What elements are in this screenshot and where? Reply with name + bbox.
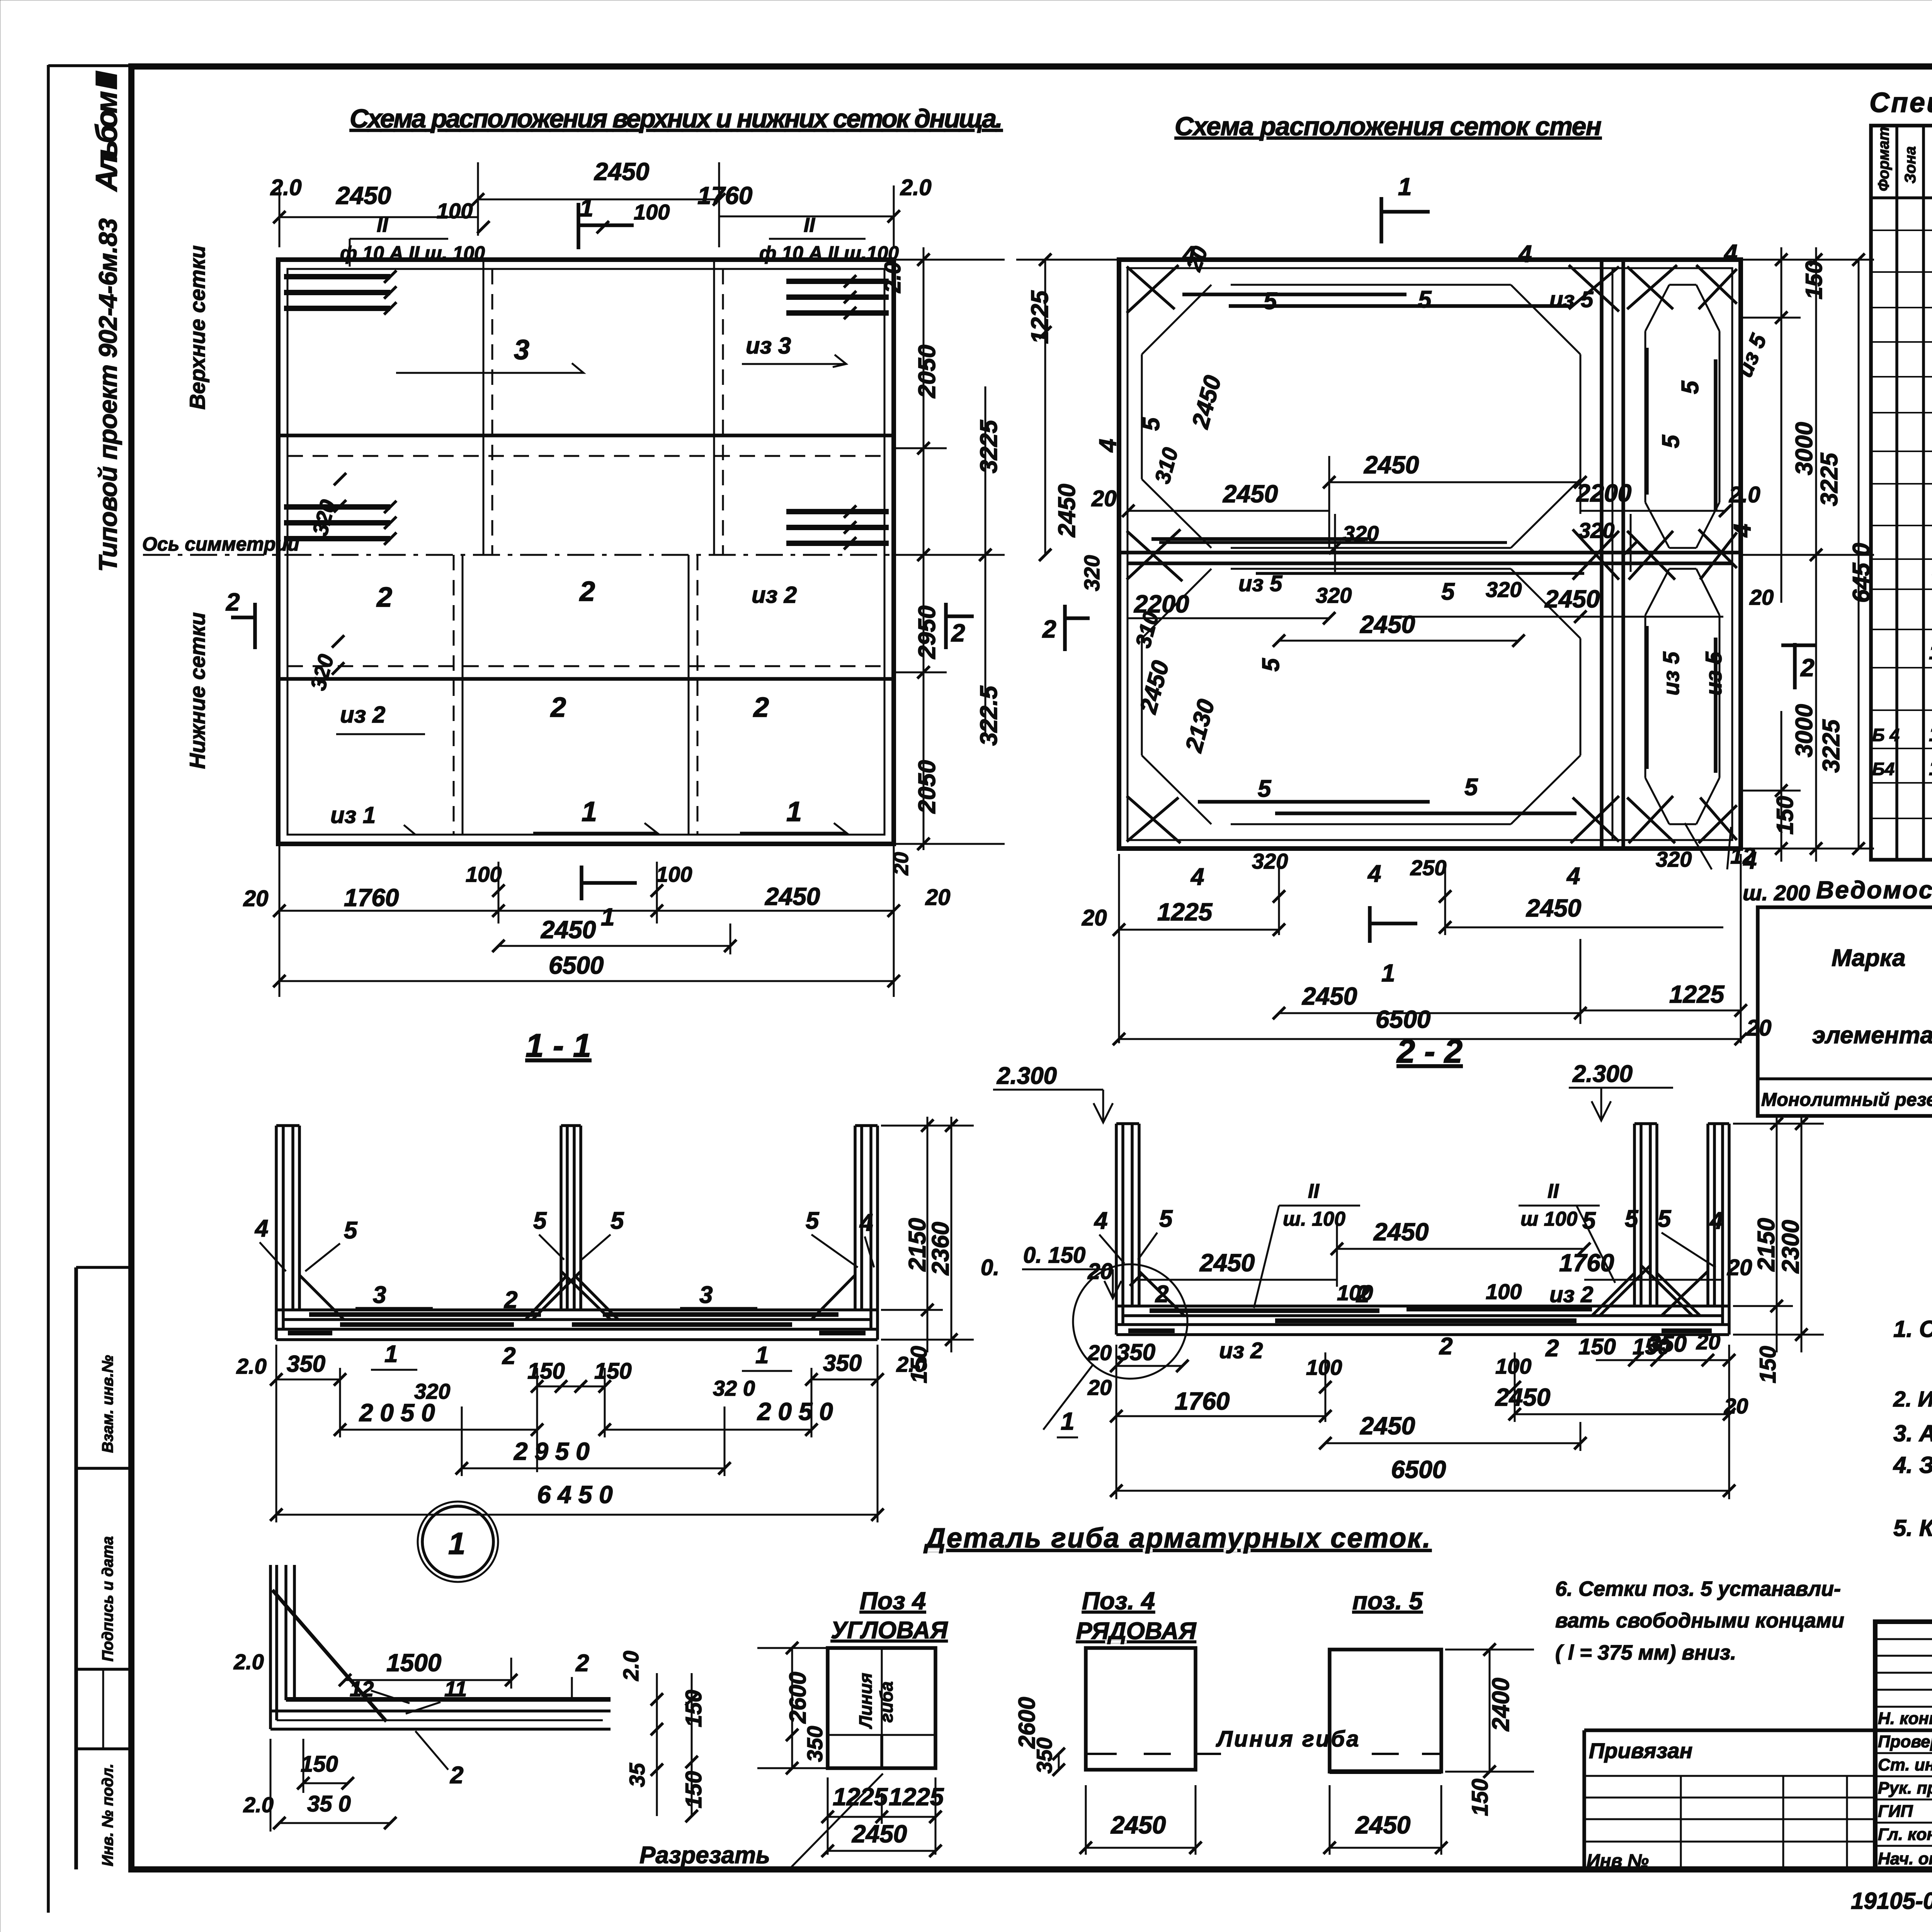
svg-text:2450: 2450 bbox=[1495, 1383, 1550, 1411]
svg-text:из 2: из 2 bbox=[1549, 1282, 1593, 1307]
svg-text:элемента: элемента bbox=[1812, 1022, 1932, 1049]
svg-text:320: 320 bbox=[308, 497, 340, 539]
svg-text:Ось симметрии: Ось симметрии bbox=[142, 533, 299, 555]
svg-text:2: 2 bbox=[753, 692, 769, 723]
svg-text:2.0: 2.0 bbox=[880, 262, 905, 293]
svg-text:из 5: из 5 bbox=[1549, 287, 1594, 312]
svg-text:2.0: 2.0 bbox=[900, 175, 932, 200]
svg-text:150: 150 bbox=[527, 1359, 565, 1384]
svg-text:100: 100 bbox=[656, 862, 692, 886]
svg-text:150: 150 bbox=[1468, 1779, 1493, 1816]
svg-text:20: 20 bbox=[243, 886, 269, 911]
svg-text:Нижние сетки: Нижние сетки bbox=[185, 612, 209, 769]
svg-text:2 0 5 0: 2 0 5 0 bbox=[757, 1398, 833, 1425]
svg-text:Поз. 4: Поз. 4 bbox=[1082, 1587, 1155, 1615]
svg-text:2600: 2600 bbox=[785, 1672, 811, 1724]
svg-text:1760: 1760 bbox=[1559, 1249, 1614, 1277]
svg-text:УГЛОВАЯ: УГЛОВАЯ bbox=[831, 1617, 948, 1644]
svg-text:6 4 5 0: 6 4 5 0 bbox=[537, 1481, 613, 1509]
svg-text:12: 12 bbox=[1730, 844, 1755, 869]
svg-text:2 9 5 0: 2 9 5 0 bbox=[514, 1437, 590, 1465]
svg-text:3: 3 bbox=[373, 1282, 386, 1308]
svg-text:2450: 2450 bbox=[1302, 982, 1357, 1010]
svg-text:10: 10 bbox=[1929, 641, 1932, 664]
svg-text:2: 2 bbox=[1800, 654, 1815, 682]
svg-text:из 5: из 5 bbox=[1659, 651, 1684, 696]
svg-text:Гл. конст: Гл. конст bbox=[1878, 1825, 1932, 1844]
svg-text:5: 5 bbox=[1464, 774, 1478, 801]
svg-text:1760: 1760 bbox=[697, 182, 752, 209]
svg-text:12: 12 bbox=[350, 1677, 374, 1701]
svg-text:320: 320 bbox=[1656, 847, 1692, 871]
svg-text:4: 4 bbox=[1566, 863, 1580, 889]
svg-text:35 0: 35 0 bbox=[307, 1791, 351, 1816]
svg-text:из 2: из 2 bbox=[340, 702, 385, 728]
svg-text:1225: 1225 bbox=[1669, 980, 1725, 1008]
svg-text:из 2: из 2 bbox=[1219, 1338, 1263, 1363]
svg-text:2: 2 bbox=[502, 1343, 515, 1369]
svg-text:1: 1 bbox=[1398, 173, 1412, 201]
svg-text:250: 250 bbox=[1410, 855, 1446, 880]
svg-text:100: 100 bbox=[466, 862, 502, 886]
svg-text:2450: 2450 bbox=[1364, 451, 1419, 479]
svg-text:из 5: из 5 bbox=[1701, 651, 1726, 696]
svg-text:150: 150 bbox=[594, 1359, 632, 1384]
svg-text:5: 5 bbox=[806, 1207, 820, 1234]
svg-text:2450: 2450 bbox=[1054, 484, 1080, 537]
svg-text:20: 20 bbox=[1087, 1375, 1112, 1400]
svg-text:1 - 1: 1 - 1 bbox=[526, 1027, 591, 1064]
svg-text:150: 150 bbox=[1772, 796, 1798, 835]
svg-text:2: 2 bbox=[579, 576, 595, 607]
svg-text:5: 5 bbox=[344, 1217, 358, 1244]
svg-text:2130: 2130 bbox=[1180, 697, 1220, 755]
svg-text:320: 320 bbox=[1252, 849, 1288, 873]
svg-text:350: 350 bbox=[1032, 1738, 1056, 1774]
svg-text:100: 100 bbox=[1495, 1354, 1531, 1378]
svg-text:2: 2 bbox=[1042, 615, 1056, 643]
svg-text:350: 350 bbox=[823, 1350, 862, 1376]
svg-text:ГИП: ГИП bbox=[1878, 1802, 1913, 1821]
svg-text:Инв. № подл.: Инв. № подл. bbox=[99, 1764, 116, 1866]
svg-text:2450: 2450 bbox=[1360, 611, 1415, 638]
svg-text:2: 2 bbox=[376, 582, 392, 613]
svg-text:Монолитный резервуар: Монолитный резервуар bbox=[1761, 1090, 1932, 1110]
svg-text:Верхние сетки: Верхние сетки bbox=[185, 245, 209, 410]
svg-text:100: 100 bbox=[634, 200, 670, 224]
svg-text:из 1: из 1 bbox=[330, 802, 376, 828]
svg-text:20: 20 bbox=[1087, 1340, 1112, 1365]
svg-text:II: II bbox=[377, 214, 388, 236]
svg-text:ф 10 А II ш. 100: ф 10 А II ш. 100 bbox=[340, 242, 485, 264]
svg-text:Привязан: Привязан bbox=[1589, 1738, 1692, 1763]
svg-text:1: 1 bbox=[448, 1526, 466, 1561]
svg-text:5: 5 bbox=[1441, 578, 1455, 605]
svg-text:II: II bbox=[1548, 1180, 1559, 1202]
svg-text:3: 3 bbox=[699, 1282, 713, 1308]
svg-text:2 - 2: 2 - 2 bbox=[1396, 1033, 1463, 1070]
svg-text:320: 320 bbox=[1316, 583, 1352, 607]
svg-text:РЯДОВАЯ: РЯДОВАЯ bbox=[1076, 1618, 1197, 1645]
svg-text:2450: 2450 bbox=[594, 158, 649, 185]
svg-text:из 5: из 5 bbox=[1732, 330, 1772, 381]
svg-text:II: II bbox=[1308, 1180, 1320, 1202]
svg-text:5: 5 bbox=[1138, 417, 1165, 431]
svg-text:II: II bbox=[804, 214, 815, 236]
svg-text:20: 20 bbox=[1091, 486, 1117, 511]
svg-text:ф 10 А II ш.100: ф 10 А II ш.100 bbox=[759, 242, 899, 264]
svg-text:4: 4 bbox=[1095, 439, 1121, 453]
svg-text:1: 1 bbox=[786, 796, 802, 827]
svg-text:150: 150 bbox=[301, 1752, 338, 1777]
svg-text:Схема расположения верхних и н: Схема расположения верхних и нижних сето… bbox=[350, 104, 1003, 133]
svg-text:Инв №: Инв № bbox=[1587, 1851, 1649, 1871]
svg-text:4. Защитный слой бетона: 4. Защитный слой бетона для нижних сеток… bbox=[1893, 1452, 1932, 1478]
svg-text:1: 1 bbox=[755, 1342, 769, 1369]
svg-text:100: 100 bbox=[1306, 1355, 1342, 1379]
svg-text:6. Сетки поз. 5 устанавли-: 6. Сетки поз. 5 устанавли- bbox=[1555, 1577, 1841, 1600]
svg-text:Провер.: Провер. bbox=[1878, 1732, 1932, 1751]
svg-text:19105-01: 19105-01 bbox=[1851, 1888, 1932, 1914]
svg-text:Взам. инв.№: Взам. инв.№ bbox=[99, 1355, 116, 1453]
svg-text:1: 1 bbox=[580, 194, 594, 222]
svg-text:3. Арматурные сетки поз: 3. Арматурные сетки поз 1÷5 выполнены по… bbox=[1893, 1420, 1932, 1446]
svg-text:4: 4 bbox=[1723, 240, 1737, 267]
svg-text:Линия: Линия bbox=[855, 1673, 876, 1729]
svg-text:5: 5 bbox=[1677, 380, 1704, 394]
svg-text:2150: 2150 bbox=[904, 1218, 931, 1272]
svg-text:2450: 2450 bbox=[765, 883, 820, 910]
svg-text:20: 20 bbox=[1749, 585, 1774, 609]
svg-text:6500: 6500 bbox=[1376, 1005, 1430, 1033]
svg-text:0. 150: 0. 150 bbox=[1023, 1243, 1085, 1268]
svg-text:1: 1 bbox=[1381, 959, 1395, 987]
svg-text:Марка: Марка bbox=[1832, 945, 1905, 971]
svg-text:4: 4 bbox=[1729, 524, 1756, 538]
svg-text:2.300: 2.300 bbox=[1572, 1061, 1633, 1087]
svg-text:5: 5 bbox=[1625, 1206, 1639, 1232]
svg-text:350: 350 bbox=[1648, 1331, 1687, 1357]
svg-text:1225: 1225 bbox=[1157, 898, 1213, 926]
svg-text:6500: 6500 bbox=[1391, 1456, 1446, 1483]
svg-text:0.: 0. bbox=[981, 1255, 999, 1280]
svg-text:11: 11 bbox=[444, 1677, 467, 1701]
svg-text:2: 2 bbox=[450, 1762, 463, 1789]
svg-text:2050: 2050 bbox=[914, 345, 940, 398]
svg-text:Спецификация монолитного резер: Спецификация монолитного резервуара bbox=[1869, 87, 1932, 118]
svg-text:2.0: 2.0 bbox=[233, 1650, 264, 1674]
svg-text:350: 350 bbox=[803, 1726, 827, 1762]
svg-text:5: 5 bbox=[1658, 1206, 1672, 1232]
svg-text:2450: 2450 bbox=[1526, 894, 1581, 922]
svg-text:гиба: гиба bbox=[876, 1681, 896, 1723]
svg-text:2450: 2450 bbox=[1544, 585, 1600, 613]
svg-text:2: 2 bbox=[1439, 1333, 1452, 1360]
svg-text:2: 2 bbox=[226, 588, 240, 616]
svg-text:320: 320 bbox=[1343, 521, 1379, 546]
svg-text:4: 4 bbox=[1709, 1207, 1723, 1234]
svg-text:5. Количество сальников: 5. Количество сальников в скобках относя… bbox=[1893, 1515, 1932, 1541]
svg-text:2050: 2050 bbox=[914, 760, 940, 814]
svg-text:Поз 4: Поз 4 bbox=[860, 1587, 926, 1615]
svg-text:ш. 200: ш. 200 bbox=[1743, 881, 1810, 905]
svg-text:4: 4 bbox=[1367, 861, 1381, 887]
svg-text:1760: 1760 bbox=[344, 884, 399, 912]
svg-text:320: 320 bbox=[1578, 518, 1614, 543]
svg-text:3000: 3000 bbox=[1791, 704, 1818, 757]
svg-text:2950: 2950 bbox=[914, 605, 940, 659]
svg-text:1760: 1760 bbox=[1175, 1387, 1230, 1415]
svg-text:2.0: 2.0 bbox=[270, 175, 302, 200]
svg-text:2450: 2450 bbox=[1355, 1811, 1410, 1839]
svg-text:1. Сетки поз 4 и 5 с: 1. Сетки поз 4 и 5 согнуть по месту до bbox=[1893, 1316, 1932, 1342]
svg-text:1: 1 bbox=[601, 903, 615, 931]
svg-text:1: 1 bbox=[1061, 1407, 1075, 1435]
svg-text:2450: 2450 bbox=[1135, 658, 1175, 717]
svg-text:2.0: 2.0 bbox=[619, 1651, 643, 1681]
svg-text:3: 3 bbox=[514, 335, 529, 366]
svg-text:2.0: 2.0 bbox=[243, 1793, 274, 1817]
svg-text:150: 150 bbox=[1578, 1334, 1616, 1359]
svg-text:322.5: 322.5 bbox=[976, 685, 1002, 746]
svg-text:4: 4 bbox=[1094, 1207, 1107, 1234]
svg-text:2.0: 2.0 bbox=[1729, 482, 1760, 507]
svg-text:2450: 2450 bbox=[1360, 1412, 1415, 1440]
svg-text:5: 5 bbox=[1159, 1206, 1173, 1232]
svg-text:1: 1 bbox=[384, 1341, 398, 1367]
svg-text:1500: 1500 bbox=[386, 1649, 441, 1677]
svg-text:350: 350 bbox=[287, 1351, 325, 1377]
svg-text:1225: 1225 bbox=[1027, 290, 1053, 344]
svg-text:Типовой проект 902-4-6м.83: Типовой проект 902-4-6м.83 bbox=[94, 218, 122, 572]
svg-text:20: 20 bbox=[1727, 1255, 1752, 1280]
svg-text:150: 150 bbox=[1801, 261, 1827, 299]
svg-text:Н. контр.: Н. контр. bbox=[1878, 1709, 1932, 1728]
svg-text:3225: 3225 bbox=[1818, 719, 1845, 773]
svg-text:2.300: 2.300 bbox=[997, 1063, 1057, 1089]
svg-text:2.0: 2.0 bbox=[236, 1354, 267, 1378]
svg-text:вать свободными концами: вать свободными концами bbox=[1555, 1609, 1844, 1632]
svg-text:Зона: Зона bbox=[1902, 146, 1919, 184]
svg-text:4: 4 bbox=[1190, 864, 1204, 890]
svg-text:2: 2 bbox=[1356, 1281, 1369, 1308]
svg-text:из 5: из 5 bbox=[1238, 571, 1282, 596]
svg-text:2: 2 bbox=[504, 1287, 517, 1313]
svg-text:100: 100 bbox=[1486, 1279, 1522, 1304]
svg-text:6500: 6500 bbox=[549, 951, 604, 979]
svg-text:2 0 5 0: 2 0 5 0 bbox=[359, 1399, 435, 1427]
svg-text:20: 20 bbox=[1696, 1330, 1720, 1354]
svg-text:320: 320 bbox=[1486, 577, 1522, 602]
svg-text:5: 5 bbox=[1658, 434, 1684, 448]
svg-text:3225: 3225 bbox=[976, 420, 1002, 473]
svg-text:11: 11 bbox=[1929, 723, 1932, 746]
svg-text:5: 5 bbox=[1258, 658, 1284, 672]
svg-text:2400: 2400 bbox=[1488, 1678, 1514, 1731]
svg-text:2. Изделие закладное поз: 2. Изделие закладное поз 7 дано для прои… bbox=[1893, 1387, 1932, 1412]
svg-text:20: 20 bbox=[1082, 905, 1107, 930]
svg-text:5: 5 bbox=[1258, 776, 1272, 802]
svg-text:2450: 2450 bbox=[1199, 1249, 1255, 1277]
svg-text:Формат: Формат bbox=[1875, 127, 1892, 191]
svg-text:Схема расположения сеток стен: Схема расположения сеток стен bbox=[1175, 112, 1602, 141]
svg-text:Альбом III: Альбом III bbox=[89, 71, 123, 192]
svg-text:( l = 375 мм) вниз.: ( l = 375 мм) вниз. bbox=[1555, 1641, 1736, 1664]
svg-text:1: 1 bbox=[582, 796, 597, 827]
svg-text:2450: 2450 bbox=[1111, 1811, 1166, 1839]
svg-text:2450: 2450 bbox=[1187, 373, 1227, 432]
svg-text:2450: 2450 bbox=[1373, 1218, 1429, 1246]
svg-text:Ст. инж.: Ст. инж. bbox=[1878, 1755, 1932, 1774]
svg-text:5: 5 bbox=[1264, 288, 1277, 315]
svg-text:2200: 2200 bbox=[1576, 479, 1631, 507]
svg-text:4: 4 bbox=[254, 1215, 268, 1242]
svg-text:2300: 2300 bbox=[1777, 1220, 1804, 1274]
svg-text:2450: 2450 bbox=[1223, 480, 1278, 508]
svg-text:320: 320 bbox=[1080, 555, 1104, 591]
svg-text:100: 100 bbox=[437, 199, 473, 223]
svg-text:2: 2 bbox=[550, 692, 566, 723]
svg-text:из 3: из 3 bbox=[746, 333, 791, 359]
svg-text:Рук. пр.: Рук. пр. bbox=[1878, 1779, 1932, 1798]
svg-text:5: 5 bbox=[1582, 1207, 1596, 1234]
svg-text:2: 2 bbox=[1545, 1335, 1559, 1362]
svg-text:Б 4: Б 4 bbox=[1872, 725, 1900, 745]
svg-text:2: 2 bbox=[575, 1650, 589, 1677]
svg-text:2450: 2450 bbox=[541, 916, 596, 944]
svg-text:150: 150 bbox=[1755, 1346, 1781, 1383]
svg-text:2: 2 bbox=[951, 619, 965, 647]
svg-text:5: 5 bbox=[611, 1207, 624, 1234]
svg-text:5: 5 bbox=[1418, 286, 1432, 313]
svg-text:4: 4 bbox=[859, 1209, 873, 1236]
svg-text:2150: 2150 bbox=[1753, 1218, 1780, 1272]
svg-text:2360: 2360 bbox=[927, 1222, 954, 1276]
svg-text:Подпись и дата: Подпись и дата bbox=[99, 1536, 116, 1662]
svg-text:ш 100: ш 100 bbox=[1520, 1208, 1578, 1230]
svg-text:3000: 3000 bbox=[1791, 422, 1818, 475]
svg-text:3225: 3225 bbox=[1816, 452, 1843, 506]
svg-text:поз. 5: поз. 5 bbox=[1352, 1587, 1423, 1615]
svg-text:150: 150 bbox=[681, 1771, 706, 1808]
svg-text:Ведомость расхода стали на эле: Ведомость расхода стали на элемент, кг bbox=[1816, 876, 1932, 904]
svg-text:310: 310 bbox=[1150, 445, 1183, 486]
svg-text:Разрезать: Разрезать bbox=[639, 1842, 770, 1869]
svg-text:5: 5 bbox=[533, 1207, 547, 1234]
svg-text:из 2: из 2 bbox=[752, 582, 797, 608]
svg-text:Б4: Б4 bbox=[1872, 759, 1895, 779]
svg-text:2450: 2450 bbox=[336, 182, 391, 209]
svg-text:Нач. отд: Нач. отд bbox=[1878, 1849, 1932, 1868]
svg-text:20: 20 bbox=[925, 885, 951, 910]
svg-text:12: 12 bbox=[1929, 757, 1932, 780]
svg-text:Линия гиба: Линия гиба bbox=[1216, 1726, 1361, 1752]
svg-text:32 0: 32 0 bbox=[713, 1376, 755, 1400]
svg-text:4: 4 bbox=[1518, 241, 1532, 267]
svg-text:150: 150 bbox=[906, 1346, 932, 1383]
svg-text:35: 35 bbox=[625, 1763, 649, 1787]
svg-text:2: 2 bbox=[1155, 1281, 1168, 1308]
svg-text:Деталь гиба арматурных сето: Деталь гиба арматурных сеток. bbox=[923, 1523, 1432, 1554]
svg-text:2450: 2450 bbox=[852, 1820, 907, 1848]
